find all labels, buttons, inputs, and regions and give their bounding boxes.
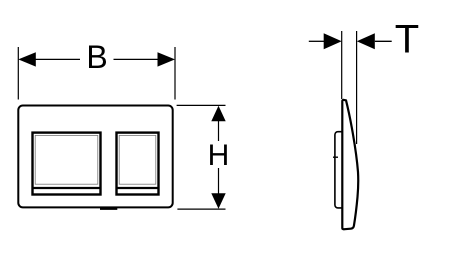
svg-text:B: B (86, 39, 107, 75)
svg-text:H: H (208, 139, 230, 172)
svg-text:T: T (395, 18, 419, 62)
